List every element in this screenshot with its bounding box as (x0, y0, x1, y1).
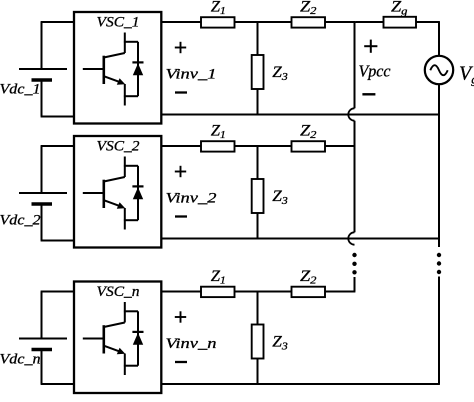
svg-text:Vpcc: Vpcc (359, 61, 391, 80)
svg-text:VSC_1: VSC_1 (97, 15, 140, 31)
svg-text:Vinv_2: Vinv_2 (166, 190, 218, 206)
svg-text:VSC_n: VSC_n (97, 284, 140, 300)
svg-text:Vinv_n: Vinv_n (166, 336, 217, 352)
svg-text:Vinv_1: Vinv_1 (166, 66, 217, 82)
svg-text:Vdc_2: Vdc_2 (0, 213, 41, 229)
svg-text:VSC_2: VSC_2 (97, 139, 141, 155)
svg-text:Vdc_1: Vdc_1 (0, 82, 41, 98)
svg-text:Vdc_n: Vdc_n (0, 352, 41, 368)
